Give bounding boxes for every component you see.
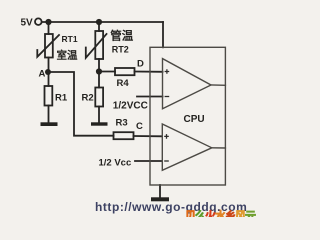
svg-text:A: A [39, 69, 46, 80]
svg-text:5V: 5V [21, 18, 34, 29]
op-amp U1 triangle [163, 59, 212, 109]
thermistor RT2 diagonal with foot [86, 34, 107, 58]
wire RT1 top stub [48, 22, 50, 34]
svg-text:D: D [137, 59, 144, 70]
op-amp U2 plus mark [164, 134, 169, 139]
junction node A [45, 69, 51, 75]
wire 1/2VCC to op-amp U1 - input [137, 96, 163, 98]
watermark logo colored glyph fragments [185, 208, 256, 222]
ground bar under R2 [91, 122, 108, 125]
wire 1/2 Vcc to op-amp U2 - input [135, 160, 162, 162]
wire node A to corner and down to R3 [49, 72, 114, 136]
junction node at rail / RT2 [96, 19, 102, 25]
ground bar under CPU [151, 197, 169, 201]
svg-text:R3: R3 [116, 118, 128, 129]
thermistor RT1 body [45, 34, 53, 58]
op-amp U2 minus mark [164, 160, 169, 162]
svg-text:R4: R4 [117, 78, 130, 89]
wire rail drop into CPU top [162, 22, 164, 47]
wire R1 to ground [48, 106, 50, 123]
junction node at 5V / RT1 [45, 19, 51, 25]
wire junction to R4 [99, 71, 115, 73]
wire R2 to ground [98, 107, 100, 123]
svg-text:1/2 Vcc: 1/2 Vcc [99, 158, 132, 169]
resistor R2 body [95, 88, 103, 107]
wire R4 to op-amp U1 + input (node D) [135, 71, 163, 73]
svg-text:C: C [136, 121, 143, 132]
thermistor RT2 body [95, 31, 103, 59]
thermistor RT1 diagonal with foot [37, 35, 59, 57]
svg-text:管温: 管温 [110, 29, 133, 43]
wire CPU ground stub [159, 185, 161, 198]
op-amp U1 minus mark [165, 96, 170, 98]
resistor R3 body [114, 132, 134, 139]
ground bar under R1 [41, 122, 58, 126]
svg-text:云: 云 [245, 209, 256, 217]
svg-text:RT1: RT1 [62, 34, 78, 44]
wire RT2 top stub [98, 22, 100, 31]
resistor R4 body [115, 68, 135, 75]
wire junction down to R2 [98, 72, 100, 88]
svg-text:CPU: CPU [184, 114, 205, 125]
wire 5V top rail [42, 21, 163, 23]
op-amp input polarity marks [164, 69, 169, 161]
op-amp U2 triangle [162, 124, 212, 170]
wire node A down to R1 [48, 72, 50, 86]
resistor R1 body [45, 86, 53, 106]
CPU block outline [150, 47, 225, 185]
wire RT2 bottom to junction [98, 59, 100, 72]
wire U1 output [211, 84, 225, 86]
svg-text:R1: R1 [55, 93, 68, 104]
wire R3 to op-amp U2 + input (node C) [134, 135, 163, 137]
svg-text:R2: R2 [82, 93, 94, 104]
wire RT1 bottom to node A [48, 58, 50, 73]
node 5V terminal circle [35, 18, 42, 25]
svg-text:1/2VCC: 1/2VCC [113, 100, 148, 111]
svg-text:RT2: RT2 [112, 44, 129, 54]
svg-text:室温: 室温 [57, 48, 78, 61]
junction node RT2/R2/R4 [96, 68, 102, 74]
op-amp U1 plus mark [165, 69, 170, 74]
wire U2 output [212, 147, 226, 149]
